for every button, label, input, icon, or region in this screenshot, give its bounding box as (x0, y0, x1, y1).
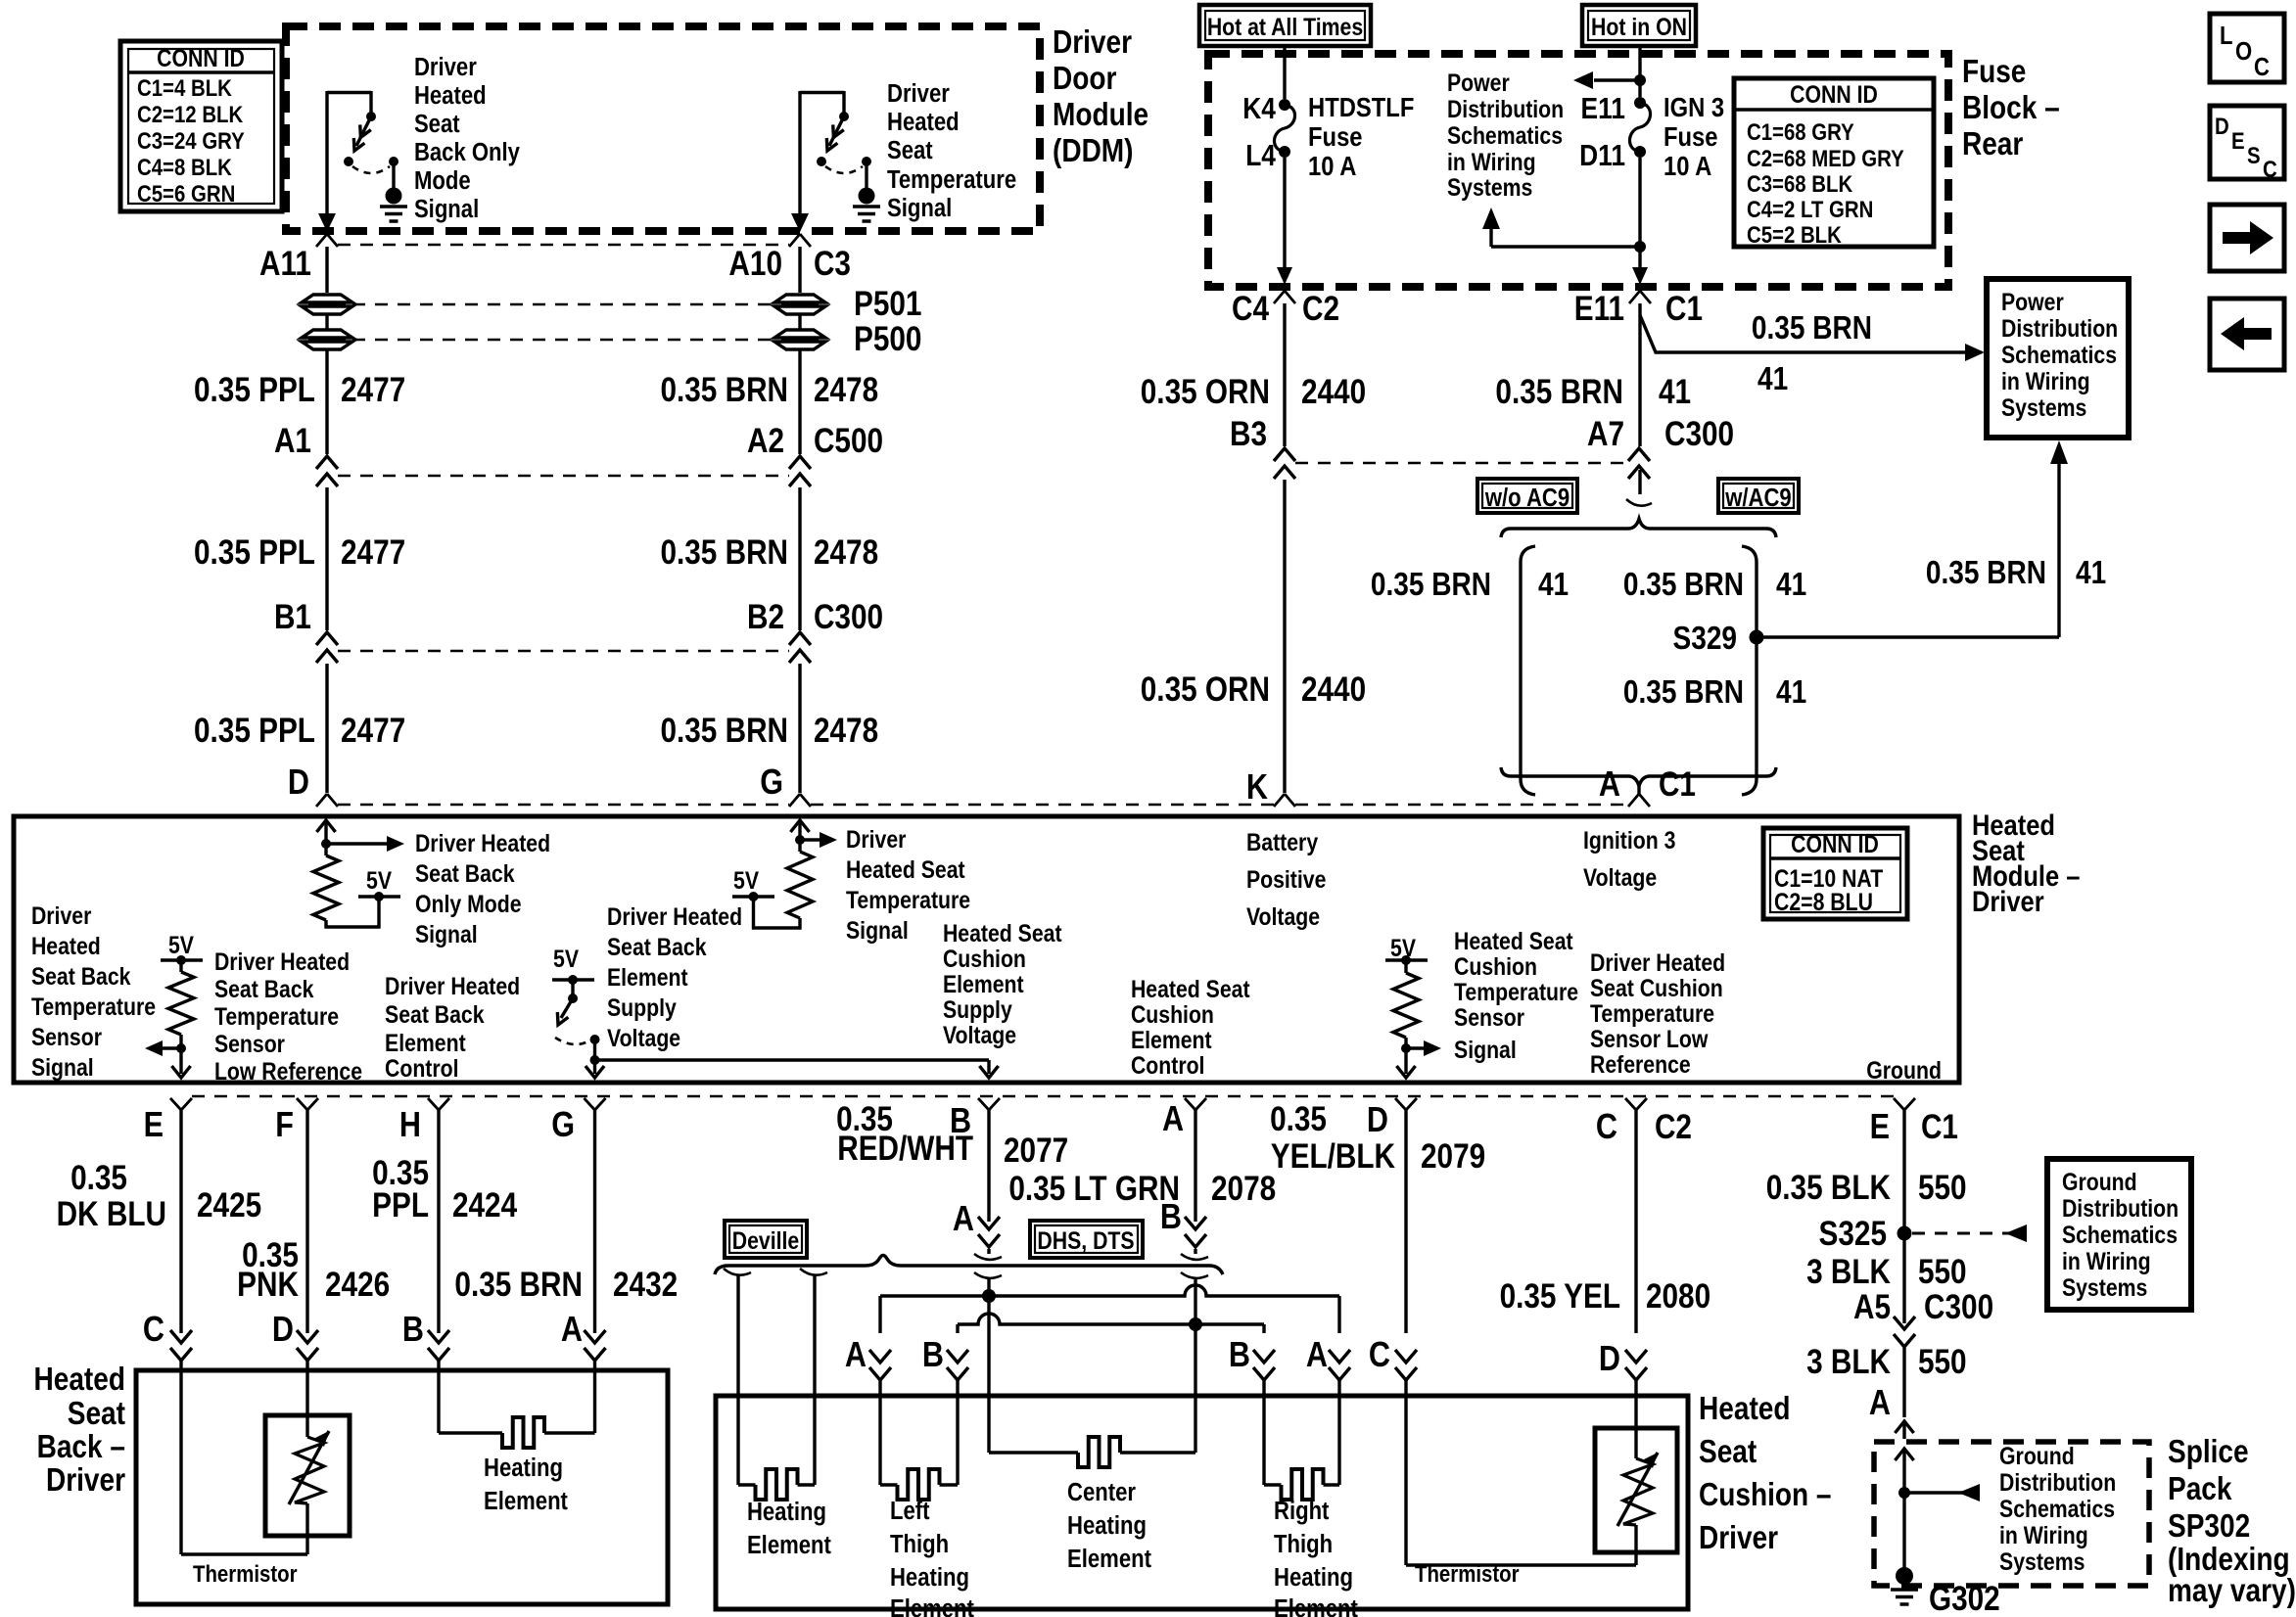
svg-text:0.35 BRN: 0.35 BRN (1371, 567, 1491, 603)
svg-text:550: 550 (1918, 1253, 1967, 1291)
svg-text:Seat: Seat (1699, 1434, 1757, 1470)
svg-text:2077: 2077 (1004, 1132, 1068, 1170)
svg-text:5V: 5V (168, 931, 194, 958)
wire 0.35 ORN 2440 upper segment (1141, 303, 1366, 453)
svg-text:Back –: Back – (37, 1429, 125, 1465)
wire pin D to cushion (C arrow) (1270, 1100, 1485, 1396)
svg-text:Driver: Driver (846, 825, 906, 853)
heating element E2 Deville cushion (738, 1275, 815, 1500)
svg-text:D: D (2215, 113, 2229, 139)
svg-text:41: 41 (1776, 674, 1806, 711)
resistor R2 back temperature sensor (pins E/F) (145, 931, 203, 1078)
wire 0.35 BRN 2478 segment to module pin G (660, 664, 878, 803)
svg-text:Only Mode: Only Mode (415, 890, 522, 917)
svg-text:Heated: Heated (414, 81, 487, 110)
svg-text:in Wiring: in Wiring (1999, 1521, 2088, 1548)
wire 0.35 YEL 2080 pin C to thermistor (D arrow) (1500, 1110, 1711, 1396)
label Thermistor (cushion) (1415, 1560, 1520, 1587)
svg-text:Battery: Battery (1246, 828, 1318, 855)
svg-text:DHS, DTS: DHS, DTS (1037, 1226, 1134, 1254)
fuse F1 HTDSTLF Fuse 10 A (1242, 46, 1414, 285)
svg-text:Driver: Driver (46, 1462, 125, 1499)
bus line1 element supply (hops wire B) (845, 1285, 1350, 1396)
svg-text:in Wiring: in Wiring (2062, 1247, 2151, 1274)
svg-text:Schematics: Schematics (2001, 341, 2117, 368)
svg-text:C: C (143, 1311, 164, 1350)
svg-text:2432: 2432 (613, 1266, 678, 1304)
wire 0.35 PPL 2424 (pin H) (372, 1110, 517, 1370)
svg-text:in Wiring: in Wiring (1447, 148, 1536, 175)
svg-text:C300: C300 (1664, 415, 1734, 453)
svg-text:2426: 2426 (325, 1266, 390, 1304)
ground G302 (1891, 1567, 2000, 1617)
box Power Distribution Schematics in Wiring Systems (right) (1987, 279, 2129, 438)
connector C300 row B1 / B2 (274, 598, 883, 663)
resistor R4 cushion temperature sensor (pins D/C) (1385, 934, 1441, 1078)
svg-text:Driver Heated: Driver Heated (214, 947, 350, 975)
splice S325 (1819, 1215, 2027, 1253)
module box Heated Seat Back - Driver (136, 1370, 668, 1604)
svg-text:C2: C2 (1302, 290, 1339, 328)
icon box left arrow (2210, 299, 2284, 370)
svg-text:Door: Door (1053, 61, 1116, 97)
svg-text:Seat: Seat (68, 1396, 125, 1432)
svg-text:C500: C500 (814, 422, 883, 460)
svg-text:A5: A5 (1853, 1288, 1891, 1326)
svg-text:Hot in ON: Hot in ON (1591, 13, 1687, 40)
svg-text:Temperature: Temperature (1590, 999, 1714, 1027)
module box Driver Door Module (DDM), dashed (286, 26, 1040, 231)
svg-text:Seat Cushion: Seat Cushion (1590, 974, 1723, 1001)
svg-text:Hot at All Times: Hot at All Times (1207, 13, 1363, 40)
svg-text:C: C (1596, 1108, 1617, 1147)
wire 3 BLK 550 C300 to splice pack (1806, 1343, 1967, 1439)
svg-text:C2=68 MED GRY: C2=68 MED GRY (1747, 145, 1904, 171)
label Heating Element (Deville) (747, 1498, 831, 1559)
svg-text:Fuse: Fuse (1308, 120, 1363, 152)
icon box DESC (2210, 106, 2284, 182)
label Driver Heated Seat Back Temperature Sensor Signal (31, 901, 156, 1081)
svg-text:Voltage: Voltage (1246, 902, 1320, 930)
svg-text:B: B (1160, 1198, 1182, 1237)
svg-text:Pack: Pack (2168, 1471, 2232, 1507)
svg-text:(DDM): (DDM) (1053, 133, 1134, 169)
svg-text:Element: Element (890, 1594, 974, 1617)
svg-text:Driver: Driver (1972, 885, 2044, 917)
svg-text:CONN ID: CONN ID (1790, 80, 1878, 108)
label Driver Heated Seat Back Element Supply Voltage (607, 902, 742, 1051)
svg-text:Heated Seat: Heated Seat (1454, 927, 1573, 954)
svg-text:Signal: Signal (887, 194, 952, 222)
label Heated Seat Cushion Element Control (1131, 975, 1250, 1079)
inline connector P500 (302, 315, 921, 358)
svg-text:Schematics: Schematics (1447, 121, 1563, 149)
icon box LOC (2210, 14, 2284, 82)
connector table CONN ID (Driver Door Module) (120, 41, 282, 211)
svg-text:K: K (1246, 768, 1268, 808)
svg-text:Heated: Heated (887, 108, 960, 136)
svg-text:Temperature: Temperature (1454, 978, 1578, 1005)
variant brace line (Deville / DHS DTS) (715, 1254, 1223, 1278)
label Battery Positive Voltage (1246, 828, 1327, 930)
svg-text:Voltage: Voltage (607, 1024, 680, 1051)
svg-text:Ground: Ground (1866, 1056, 1942, 1084)
svg-text:SP302: SP302 (2168, 1508, 2250, 1545)
svg-text:2478: 2478 (814, 371, 878, 409)
svg-text:41: 41 (1776, 567, 1806, 603)
svg-text:Seat: Seat (414, 110, 460, 138)
svg-text:Heating: Heating (1274, 1563, 1353, 1592)
wire 0.35 BRN 41 vertical segment to C300 A7 (1495, 303, 1734, 453)
label Driver Heated Seat Temperature Signal (846, 825, 970, 944)
svg-text:Seat Back: Seat Back (31, 962, 131, 990)
label Ground Distribution Schematics in Wiring Systems (splice pack) (1999, 1442, 2116, 1575)
svg-text:C3: C3 (814, 245, 851, 283)
label Heating Element (seat back) (484, 1454, 568, 1515)
alternative wire bracket (w/o AC9) 0.35 BRN 41 (1371, 546, 1569, 795)
svg-text:D: D (1599, 1340, 1620, 1379)
svg-text:C3=24 GRY: C3=24 GRY (137, 127, 245, 154)
svg-text:Rear: Rear (1962, 126, 2023, 162)
svg-text:Ignition 3: Ignition 3 (1583, 826, 1675, 854)
svg-text:L: L (2220, 22, 2232, 50)
label Ignition 3 Voltage (1583, 826, 1675, 891)
svg-text:550: 550 (1918, 1343, 1967, 1381)
wire inside splice pack to G302 (1895, 1449, 1980, 1574)
wire 2477 upper segment (left) (325, 247, 328, 293)
svg-text:10 A: 10 A (1663, 150, 1712, 181)
svg-text:Driver Heated: Driver Heated (1590, 948, 1725, 976)
label Driver Heated Seat Back Temperature Sensor Low Reference (214, 947, 362, 1085)
brace joining alternatives to module pin A (1501, 765, 1776, 805)
module box Splice Pack SP302, dashed (1874, 1442, 2149, 1586)
svg-text:E: E (144, 1106, 164, 1145)
svg-text:Sensor: Sensor (214, 1030, 285, 1057)
svg-text:A10: A10 (728, 245, 782, 283)
svg-text:0.35 PPL: 0.35 PPL (194, 712, 315, 750)
svg-text:Element: Element (1274, 1594, 1358, 1617)
svg-text:E: E (2231, 127, 2245, 154)
variant label box Deville (725, 1221, 807, 1258)
svg-text:Sensor Low: Sensor Low (1590, 1025, 1709, 1052)
svg-text:Signal: Signal (1454, 1036, 1517, 1063)
svg-text:A: A (561, 1311, 583, 1350)
icon box right arrow (2210, 205, 2284, 271)
svg-text:HTDSTLF: HTDSTLF (1308, 91, 1414, 122)
svg-text:Driver: Driver (887, 79, 950, 108)
svg-text:Splice: Splice (2168, 1434, 2249, 1470)
module box Heated Seat Module - Driver (14, 816, 1959, 1083)
svg-text:D: D (1367, 1101, 1388, 1140)
svg-text:Back Only: Back Only (414, 138, 521, 166)
svg-text:5V: 5V (366, 866, 392, 894)
svg-text:Fuse: Fuse (1962, 54, 2026, 90)
label Center Heating Element (1067, 1478, 1151, 1573)
svg-text:A11: A11 (259, 245, 311, 283)
svg-text:C1=68 GRY: C1=68 GRY (1747, 118, 1854, 145)
svg-text:C300: C300 (814, 598, 883, 636)
svg-text:E: E (1870, 1108, 1890, 1147)
connector table CONN ID (Heated Seat Module) (1763, 828, 1907, 919)
svg-text:Heating: Heating (484, 1454, 563, 1482)
wire to power distribution (up arrow) (1482, 208, 1646, 253)
svg-text:0.35 BRN: 0.35 BRN (1752, 310, 1872, 346)
wire 0.35 BRN 2432 (pin G) (454, 1110, 678, 1370)
svg-text:Distribution: Distribution (2001, 314, 2118, 342)
svg-text:G302: G302 (1929, 1580, 2000, 1617)
svg-text:0.35: 0.35 (1270, 1100, 1327, 1138)
svg-text:Seat: Seat (887, 136, 933, 164)
svg-text:C: C (1369, 1336, 1390, 1375)
label Heated Seat Module - Driver (1972, 808, 2080, 917)
svg-text:Driver Heated: Driver Heated (607, 902, 742, 930)
svg-text:CONN ID: CONN ID (157, 44, 245, 71)
svg-text:Signal: Signal (846, 916, 909, 944)
svg-text:2425: 2425 (197, 1186, 261, 1224)
svg-text:Supply: Supply (943, 995, 1012, 1023)
label Heated Seat Cushion - Driver (1699, 1391, 1832, 1556)
svg-text:Cushion –: Cushion – (1699, 1477, 1832, 1513)
wire 0.35 RED/WHT 2077 (pin B) (836, 1100, 1068, 1247)
svg-text:0.35: 0.35 (70, 1159, 127, 1197)
svg-text:F: F (275, 1106, 294, 1145)
svg-text:0.35 LT GRN: 0.35 LT GRN (1008, 1170, 1180, 1208)
connector C500 row A1 / A2 (274, 422, 883, 486)
svg-text:IGN 3: IGN 3 (1663, 91, 1724, 122)
wire B (2078) branch through brace to junction (1189, 1249, 1202, 1453)
svg-text:0.35 BRN: 0.35 BRN (660, 371, 788, 409)
svg-text:Cushion: Cushion (1131, 1000, 1214, 1028)
svg-text:Mode: Mode (414, 166, 471, 195)
svg-text:2477: 2477 (341, 371, 405, 409)
svg-text:Ground: Ground (1999, 1442, 2075, 1469)
svg-text:C5=6 GRN: C5=6 GRN (137, 180, 235, 207)
svg-text:G: G (760, 763, 783, 803)
svg-text:0.35 BRN: 0.35 BRN (660, 712, 788, 750)
wire 0.35 BRN 2478 segment to C300 (660, 487, 878, 630)
svg-text:0.35 PPL: 0.35 PPL (194, 371, 315, 409)
svg-text:C2: C2 (1655, 1108, 1692, 1146)
svg-text:PNK: PNK (237, 1266, 299, 1304)
wire pin E to thermistor bottom (181, 1370, 307, 1554)
label Heated Seat Back - Driver (34, 1362, 126, 1499)
connector C300 right side row B3..A7 (1274, 448, 1650, 479)
svg-text:S329: S329 (1673, 621, 1737, 657)
svg-text:2477: 2477 (341, 712, 405, 750)
thermistor RT1 (seat back) with box (265, 1370, 350, 1554)
svg-text:Signal: Signal (414, 195, 479, 223)
svg-text:Right: Right (1274, 1497, 1329, 1525)
pin letters row below module (144, 1100, 1958, 1147)
svg-text:2078: 2078 (1211, 1170, 1276, 1208)
svg-text:0.35 BRN: 0.35 BRN (660, 533, 788, 572)
svg-text:Fuse: Fuse (1663, 120, 1718, 152)
svg-text:0.35 BRN: 0.35 BRN (1495, 373, 1623, 411)
svg-text:C4: C4 (1232, 290, 1269, 328)
svg-text:Module: Module (1053, 97, 1148, 133)
svg-text:G: G (551, 1106, 575, 1145)
svg-text:PPL: PPL (372, 1186, 429, 1224)
svg-text:Element: Element (484, 1487, 568, 1515)
svg-text:0.35 BRN: 0.35 BRN (1623, 674, 1744, 711)
svg-text:2440: 2440 (1301, 670, 1366, 709)
svg-text:S325: S325 (1819, 1215, 1887, 1253)
svg-text:C300: C300 (1924, 1288, 1993, 1326)
module top connector dashed line (C1/C2 of heated seat module) (316, 794, 1650, 807)
svg-text:Distribution: Distribution (1447, 95, 1564, 122)
svg-text:0.35 BRN: 0.35 BRN (1926, 555, 2046, 591)
svg-text:Deville: Deville (732, 1226, 800, 1254)
svg-text:A2: A2 (747, 422, 784, 460)
svg-text:C1: C1 (1665, 290, 1703, 328)
switch S3 back element supply (pin G) (552, 945, 604, 1078)
resistor R1 back-only-mode pull-up (pin D) (313, 820, 404, 927)
svg-text:A: A (953, 1200, 974, 1239)
svg-text:C4=2 LT GRN: C4=2 LT GRN (1747, 196, 1873, 222)
svg-text:Systems: Systems (2062, 1273, 2147, 1301)
svg-text:Thermistor: Thermistor (1415, 1560, 1520, 1587)
svg-text:0.35 ORN: 0.35 ORN (1141, 373, 1270, 411)
svg-text:10 A: 10 A (1308, 150, 1357, 181)
svg-text:E11: E11 (1574, 290, 1624, 328)
label Thermistor (seat back) (193, 1560, 298, 1587)
svg-text:D: D (288, 763, 309, 803)
power feed box Hot at All Times (1199, 5, 1371, 46)
wire 0.35 PNK 2426 (pin F) (237, 1110, 390, 1370)
wire 3 BLK 550 S325 to C300 (1806, 1240, 1993, 1347)
svg-text:C2=8 BLU: C2=8 BLU (1774, 888, 1873, 915)
svg-text:A: A (1599, 765, 1620, 805)
svg-text:Cushion: Cushion (943, 945, 1026, 972)
svg-text:Element: Element (607, 963, 688, 991)
svg-text:w/AC9: w/AC9 (1724, 484, 1791, 512)
svg-text:O: O (2235, 37, 2252, 66)
svg-text:Left: Left (890, 1497, 929, 1525)
inline connector P501 (302, 285, 921, 323)
svg-text:Supply: Supply (607, 993, 677, 1021)
label Driver Heated Seat Back Only Mode Signal (415, 829, 550, 947)
switch S2 Driver Heated Seat Temperature Signal (791, 79, 1016, 232)
svg-text:B: B (1229, 1336, 1250, 1375)
svg-text:Thigh: Thigh (890, 1530, 949, 1558)
svg-text:Element: Element (943, 970, 1024, 997)
svg-text:K4: K4 (1242, 92, 1276, 125)
wire 2478 upper segment (right) (798, 247, 801, 293)
svg-text:0.35 BRN: 0.35 BRN (454, 1266, 583, 1304)
switch S1 Driver Heated Seat Back Only Mode Signal (318, 53, 521, 232)
svg-text:Driver: Driver (1053, 24, 1132, 61)
svg-text:Ground: Ground (2062, 1168, 2137, 1195)
svg-text:41: 41 (1757, 361, 1788, 397)
svg-text:Signal: Signal (31, 1053, 94, 1081)
wire 0.35 PPL 2477 segment to C500 (194, 350, 405, 454)
svg-text:2079: 2079 (1421, 1137, 1485, 1176)
svg-text:Heated Seat: Heated Seat (846, 855, 965, 883)
svg-text:L4: L4 (1245, 139, 1276, 172)
label Driver Heated Seat Cushion Temperature Sensor Low Reference (1590, 948, 1725, 1078)
svg-text:Driver Heated: Driver Heated (415, 829, 550, 856)
svg-text:3 BLK: 3 BLK (1806, 1343, 1891, 1381)
wire 0.35 PPL 2477 segment to C300 (194, 487, 405, 630)
svg-text:0.35 BLK: 0.35 BLK (1766, 1169, 1892, 1207)
label Left Thigh Heating Element (890, 1497, 974, 1617)
svg-text:C1=4 BLK: C1=4 BLK (137, 74, 232, 101)
wire 0.35 DK BLU 2425 (pin E) (57, 1110, 262, 1370)
label Ground (1866, 1056, 1942, 1084)
wire to power distribution (left arrow at top) (1573, 71, 1646, 89)
module box Heated Seat Cushion - Driver (716, 1396, 1688, 1609)
svg-text:2477: 2477 (341, 533, 405, 572)
svg-text:Element: Element (1067, 1545, 1151, 1573)
svg-text:H: H (399, 1106, 421, 1145)
svg-text:B: B (402, 1311, 424, 1350)
wire 0.35 BRN 2478 segment to C500 (660, 350, 878, 454)
box Ground Distribution Schematics in Wiring Systems (2047, 1159, 2191, 1310)
svg-text:D11: D11 (1579, 139, 1625, 172)
svg-text:D: D (272, 1311, 294, 1350)
variant label box DHS, DTS (1030, 1221, 1143, 1258)
svg-text:550: 550 (1918, 1169, 1967, 1207)
wire 0.35 LT GRN 2078 (pin A) (1008, 1110, 1276, 1247)
build option region w/o AC9 / w/AC9 (1477, 470, 1799, 537)
connector row C4 / C2 below fuse block (1232, 290, 1339, 328)
svg-text:C5=2 BLK: C5=2 BLK (1747, 221, 1842, 248)
svg-text:0.35 PPL: 0.35 PPL (194, 533, 315, 572)
svg-text:Distribution: Distribution (1999, 1468, 2116, 1496)
svg-text:w/o AC9: w/o AC9 (1484, 484, 1570, 512)
svg-text:may vary): may vary) (2168, 1573, 2296, 1609)
svg-text:DK BLU: DK BLU (57, 1195, 166, 1233)
svg-text:Heated: Heated (31, 932, 101, 959)
svg-text:5V: 5V (733, 866, 759, 894)
heating element E1 (seat back) (439, 1370, 595, 1448)
label Fuse Block - Rear (1962, 54, 2060, 162)
svg-text:in Wiring: in Wiring (2001, 367, 2090, 394)
label Driver Door Module (DDM) (1053, 24, 1148, 169)
label Right Thigh Heating Element (1274, 1497, 1358, 1617)
connector row A11 / A10 C3, dashed connector line (259, 234, 851, 283)
svg-text:B1: B1 (274, 598, 311, 636)
svg-text:2080: 2080 (1646, 1277, 1710, 1316)
svg-text:5V: 5V (553, 945, 579, 972)
svg-text:C: C (2254, 53, 2270, 81)
svg-text:Heating: Heating (1067, 1511, 1147, 1540)
svg-text:A: A (845, 1336, 867, 1375)
svg-text:Driver: Driver (414, 53, 477, 81)
heating element E5 Right Thigh (1264, 1396, 1339, 1500)
svg-text:Thermistor: Thermistor (193, 1560, 298, 1587)
svg-text:Seat Back: Seat Back (214, 975, 314, 1002)
svg-text:Sensor: Sensor (1454, 1003, 1524, 1031)
svg-text:RED/WHT: RED/WHT (837, 1130, 973, 1168)
svg-text:Systems: Systems (2001, 393, 2086, 421)
bus line2 element control (hops wire A) (922, 1314, 1275, 1396)
module box Fuse Block - Rear, dashed (1208, 54, 1948, 287)
svg-text:C: C (2263, 156, 2277, 182)
svg-text:41: 41 (1659, 373, 1691, 411)
svg-text:Thigh: Thigh (1274, 1530, 1333, 1558)
svg-text:3 BLK: 3 BLK (1806, 1253, 1891, 1291)
label Driver Heated Seat Back Element Control (385, 972, 520, 1082)
svg-text:C3=68 BLK: C3=68 BLK (1747, 170, 1852, 197)
svg-text:0.35 ORN: 0.35 ORN (1141, 670, 1270, 709)
svg-text:Systems: Systems (1447, 173, 1532, 201)
svg-text:C1: C1 (1659, 765, 1696, 804)
label Splice Pack SP302 (Indexing may vary) (2168, 1434, 2296, 1609)
svg-text:A: A (1162, 1100, 1184, 1139)
svg-text:P501: P501 (854, 285, 921, 323)
svg-text:Block –: Block – (1962, 90, 2060, 126)
